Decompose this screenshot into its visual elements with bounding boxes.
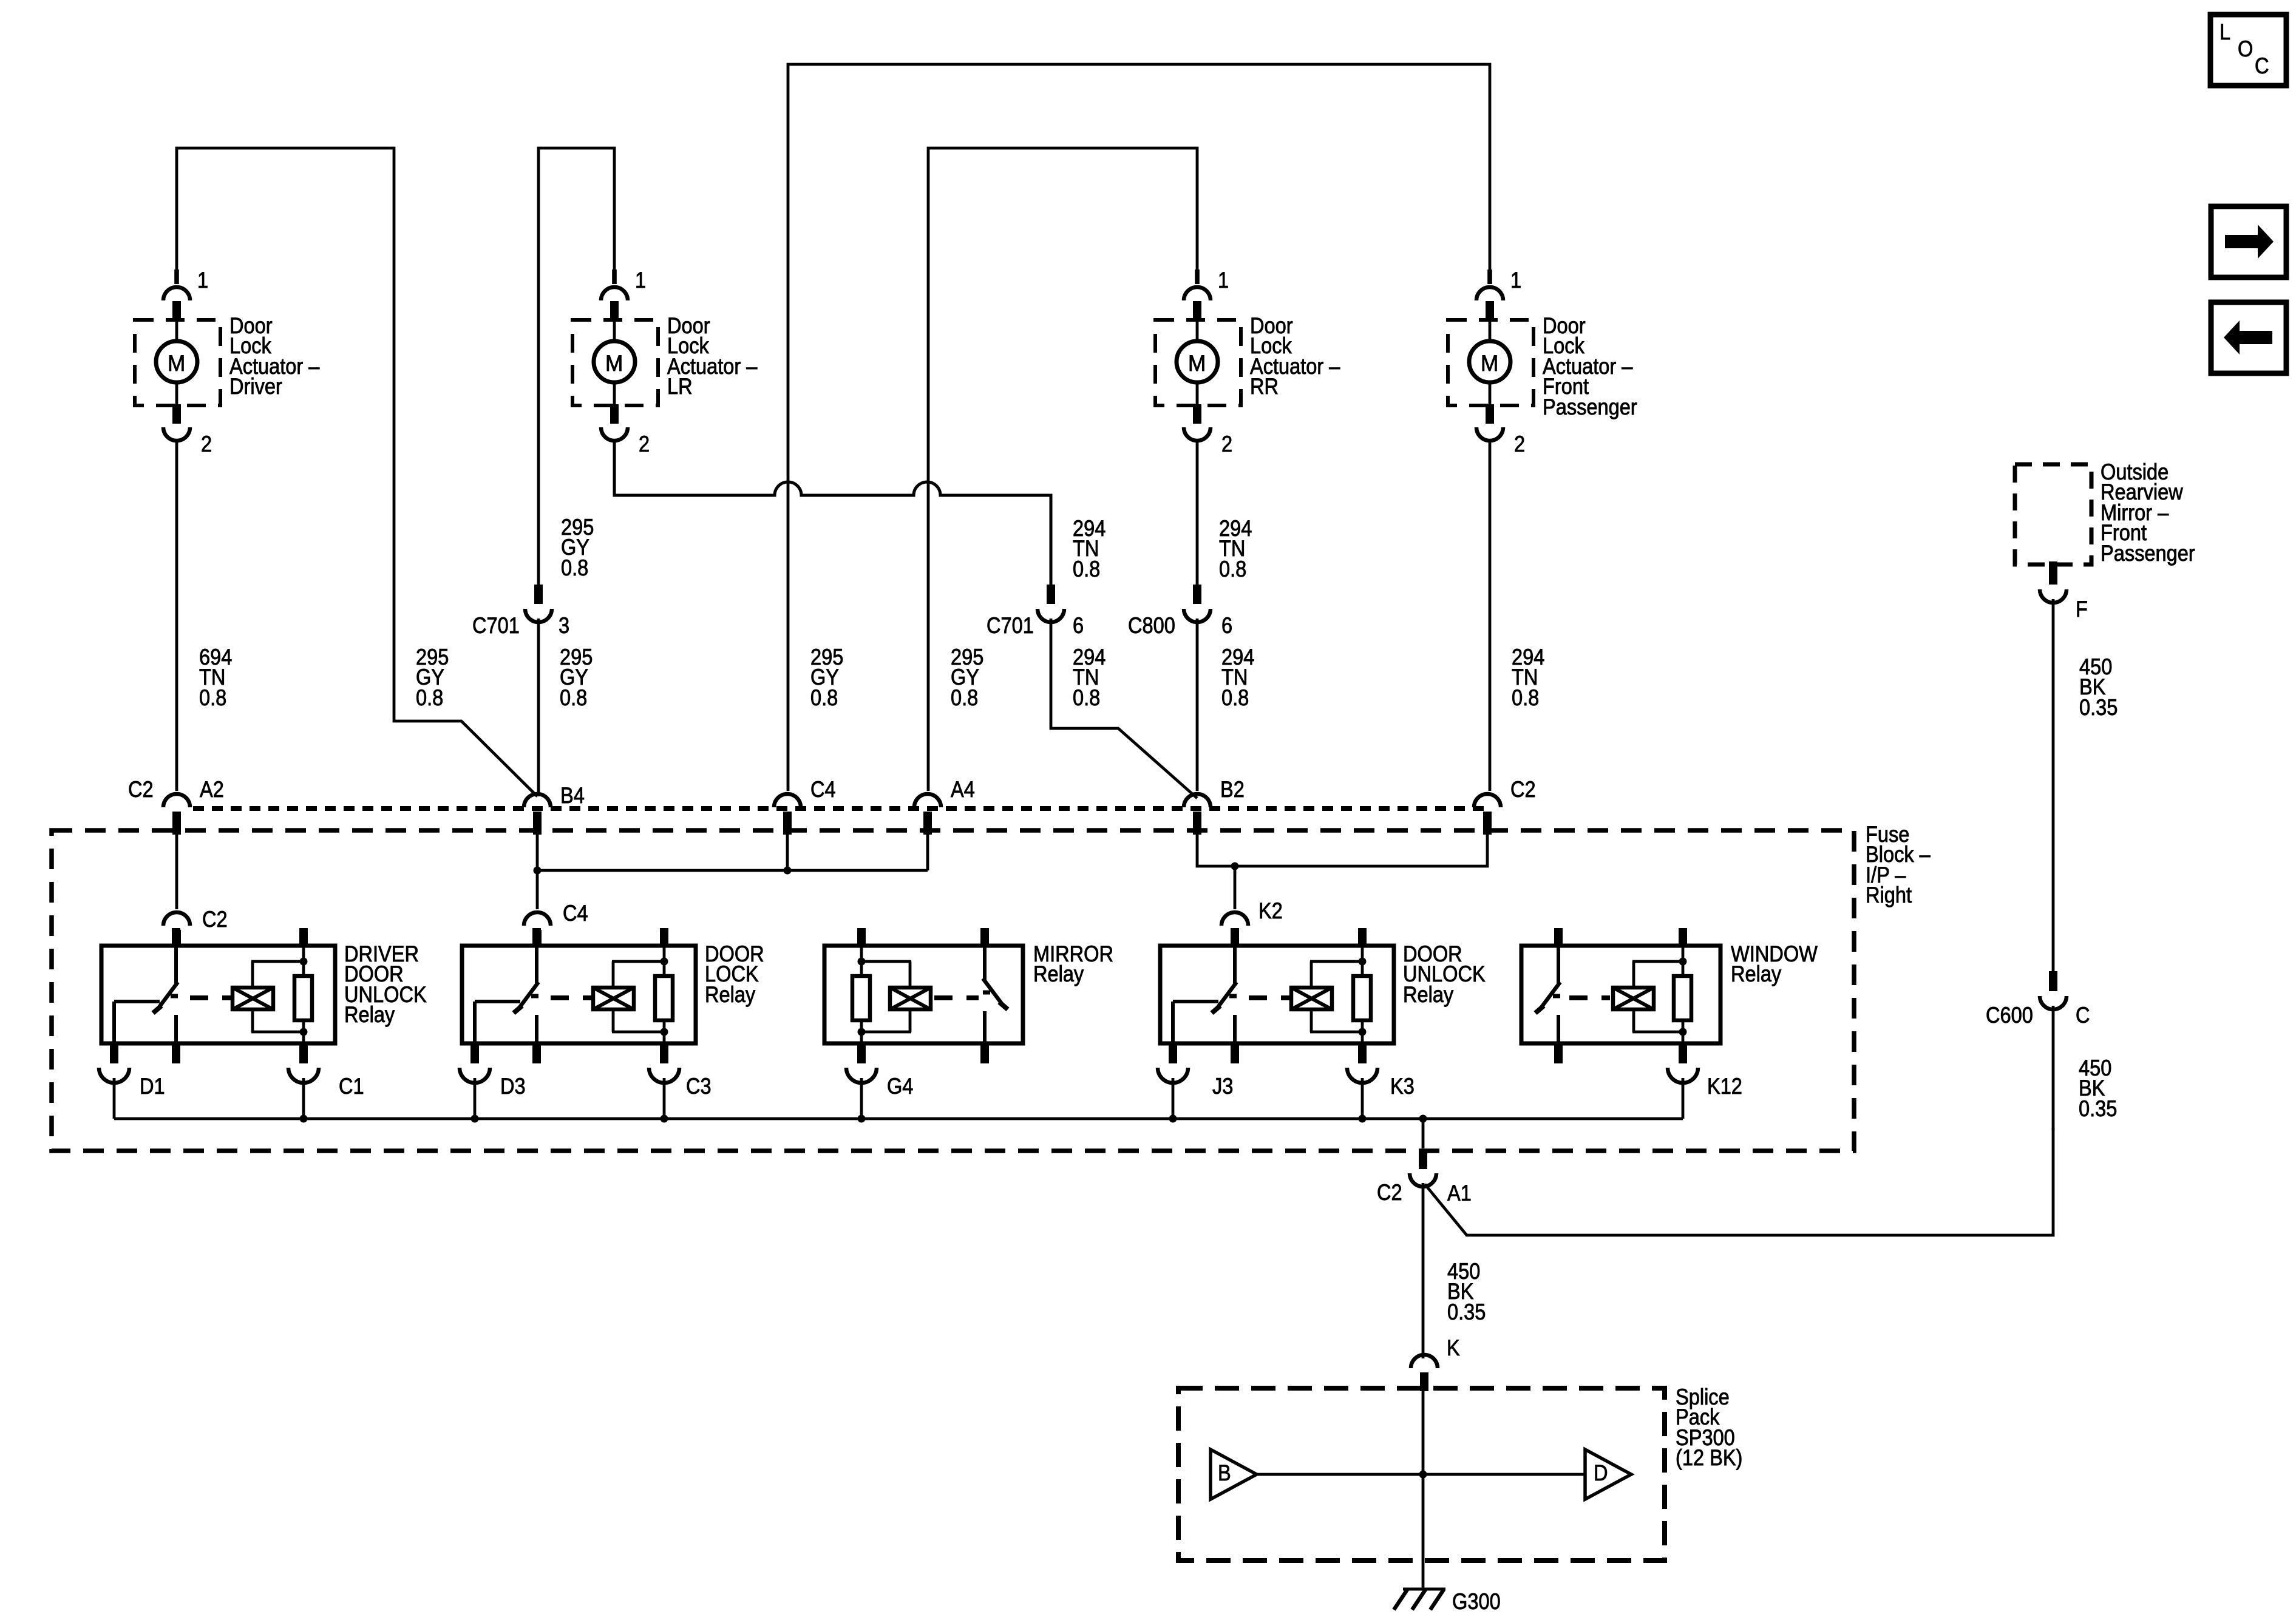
coil-resistor top link (DOOR UNLOCK) <box>1310 960 1362 963</box>
top right stub pin (DOOR UNLOCK) <box>1358 928 1367 946</box>
svg-text:C2: C2 <box>202 907 228 932</box>
svg-text:0.8: 0.8 <box>416 685 443 710</box>
splice pack entry connector K <box>1411 1355 1438 1391</box>
resistor bottom lead (DOOR LOCK) <box>663 1019 666 1032</box>
svg-text:Right: Right <box>1866 883 1912 907</box>
junction dot K2 branch <box>1231 863 1239 870</box>
relay DRIVER DOOR UNLOCK <box>99 928 427 1119</box>
relay body box (DRIVER DOOR UNLOCK) <box>101 946 335 1043</box>
svg-text:Relay: Relay <box>705 982 756 1007</box>
svg-text:2: 2 <box>1514 432 1525 456</box>
svg-text:D3: D3 <box>500 1074 526 1099</box>
wire J3 to ground bus (DOOR UNLOCK) <box>1172 1078 1175 1119</box>
switch common wire (DOOR LOCK) <box>535 946 538 983</box>
bottom pin C1 (DRIVER DOOR UNLOCK) <box>299 1043 308 1063</box>
left arrow box <box>2211 302 2286 373</box>
pin 2 terminal (driver) <box>172 404 181 424</box>
coil top lead (DOOR LOCK) <box>612 961 615 988</box>
svg-text:Relay: Relay <box>344 1002 395 1027</box>
junction dot splice SP300 <box>1419 1471 1427 1479</box>
svg-text:RR: RR <box>1250 374 1279 399</box>
svg-text:0.35: 0.35 <box>2079 1096 2117 1121</box>
svg-text:Relay: Relay <box>1731 961 1782 986</box>
wire K3 to ground bus (DOOR UNLOCK) <box>1361 1078 1364 1119</box>
svg-text:Passenger: Passenger <box>1543 395 1637 419</box>
fuse block exit connector C2/A1 <box>1410 1151 1436 1187</box>
resistor bottom lead (DOOR UNLOCK) <box>1361 1019 1364 1032</box>
top left stub pin (MIRROR) <box>857 928 866 946</box>
svg-text:0.8: 0.8 <box>951 685 978 710</box>
connector C800 pin 6 <box>1128 585 1232 638</box>
relay feed connector C2 (driver door unlock relay) <box>163 912 190 946</box>
svg-text:0.8: 0.8 <box>1073 685 1100 710</box>
svg-text:0.8: 0.8 <box>1221 685 1249 710</box>
pin 1 connector arc (LR) <box>601 287 628 300</box>
switch contact nub (DOOR UNLOCK) <box>1229 994 1237 998</box>
ground bus wire inside fuse block <box>114 1117 1683 1120</box>
switch blade foot (DOOR UNLOCK) <box>1212 1006 1220 1013</box>
svg-text:Driver: Driver <box>229 374 282 399</box>
mechanical link dashes (MIRROR) <box>934 995 979 1000</box>
svg-text:0.8: 0.8 <box>810 685 838 710</box>
mirror connector pin F <box>2040 561 2067 603</box>
pin 2 terminal (front passenger) <box>1486 404 1494 424</box>
connector arc J3 (DOOR UNLOCK) <box>1158 1068 1188 1083</box>
svg-text:2: 2 <box>639 432 650 456</box>
coil wire to bottom pin (DOOR LOCK) <box>663 1032 666 1043</box>
junction dot on ground bus <box>300 1115 308 1123</box>
svg-text:M: M <box>1188 351 1206 376</box>
pin 1 terminal (LR) <box>610 301 619 320</box>
svg-text:M: M <box>1481 351 1498 376</box>
LOC reference box <box>2210 15 2286 86</box>
mechanical link dashes (DOOR LOCK) <box>551 995 591 1000</box>
svg-text:0.8: 0.8 <box>1512 685 1539 710</box>
wire LR actuator pin2 to connector C701 pin3 with crossover hops <box>614 439 1051 586</box>
junction dot coil bottom (WINDOW) <box>1679 1028 1687 1036</box>
bottom pin K3 (DOOR UNLOCK) <box>1358 1043 1367 1063</box>
internal wire pin1-motor (driver) <box>175 320 178 342</box>
motor symbol M (front passenger) <box>1469 341 1510 382</box>
throw contact wire vertical (DRIVER DOOR UNLOCK) <box>112 1002 116 1043</box>
junction dot coil top (MIRROR) <box>858 958 866 966</box>
interior wire A4 down to bus <box>926 835 929 870</box>
right arrow box <box>2211 206 2286 277</box>
junction dot B4/bus <box>534 867 542 875</box>
relay coil (DRIVER DOOR UNLOCK) <box>233 988 273 1009</box>
wire C701-3 to fuse block B4 <box>537 619 540 796</box>
coil-resistor bottom link (DRIVER DOOR UNLOCK) <box>251 1031 304 1034</box>
connector arc K3 (DOOR UNLOCK) <box>1347 1068 1377 1083</box>
svg-text:K3: K3 <box>1390 1074 1415 1099</box>
svg-text:C2: C2 <box>128 777 154 802</box>
switch lower stub (DOOR LOCK) <box>535 1015 538 1043</box>
junction dot coil top (WINDOW) <box>1679 958 1687 966</box>
svg-text:B: B <box>1218 1460 1231 1485</box>
junction dot coil top (DOOR LOCK) <box>661 958 668 966</box>
svg-text:C4: C4 <box>810 777 836 802</box>
relay MIRROR <box>824 928 1113 1119</box>
pin 1 connector arc (driver) <box>163 287 190 300</box>
pin 2 terminal (LR) <box>610 404 619 424</box>
junction dot ground bus to A1 <box>1419 1115 1427 1123</box>
relay feed connector K2 (door unlock relay) <box>1221 912 1248 946</box>
internal wire motor-pin2 (driver) <box>175 382 178 405</box>
svg-text:G4: G4 <box>887 1074 913 1099</box>
switch blade foot (DOOR LOCK) <box>514 1006 522 1013</box>
junction dot on ground bus <box>661 1115 668 1123</box>
top switch pin (DOOR LOCK) <box>532 928 541 946</box>
svg-text:0.8: 0.8 <box>560 685 587 710</box>
coil top lead (WINDOW) <box>1632 961 1635 988</box>
svg-text:C701: C701 <box>472 613 520 638</box>
interior wire to door unlock relay K2 <box>1234 866 1237 909</box>
svg-text:B2: B2 <box>1220 777 1245 802</box>
top right stub pin (DRIVER DOOR UNLOCK) <box>299 928 308 946</box>
coil bottom lead (DRIVER DOOR UNLOCK) <box>251 1009 254 1032</box>
fuse block entry connector C4 <box>774 794 801 835</box>
relay DOOR LOCK <box>460 928 764 1119</box>
wire C600 down to corner <box>2052 1006 2055 1130</box>
svg-text:K2: K2 <box>1258 898 1283 923</box>
bottom middle stub pin (DOOR UNLOCK) <box>1231 1043 1239 1063</box>
resistor (WINDOW) <box>1674 976 1691 1020</box>
actuator dashed outline (LR) <box>572 320 658 405</box>
junction dot on ground bus <box>1359 1115 1367 1123</box>
svg-text:6: 6 <box>1073 613 1084 638</box>
junction dot coil bottom (MIRROR) <box>858 1028 866 1036</box>
throw contact wire vertical (DOOR LOCK) <box>473 1002 477 1043</box>
svg-text:0.8: 0.8 <box>1073 557 1100 581</box>
junction dot on ground bus <box>858 1115 866 1123</box>
svg-text:C800: C800 <box>1128 613 1175 638</box>
coil bottom lead (WINDOW) <box>1632 1009 1635 1032</box>
mechanical link dashes (DOOR UNLOCK) <box>1249 995 1289 1000</box>
wire driver actuator pin2 to fuse block A2 <box>175 439 178 791</box>
svg-text:A4: A4 <box>951 777 975 802</box>
internal wire pin1-motor (LR) <box>613 320 616 342</box>
splice terminal triangle B <box>1211 1449 1257 1499</box>
branch wire A1 to C600 (mirror feed) <box>1425 1128 2053 1235</box>
fuse block entry connector A4 <box>914 794 941 835</box>
pin 1 connector arc (front passenger) <box>1476 287 1503 300</box>
coil-resistor top link (WINDOW) <box>1632 960 1683 963</box>
svg-text:B4: B4 <box>560 783 585 808</box>
svg-text:L: L <box>2220 19 2230 44</box>
pin 1 terminal (RR) <box>1193 301 1201 320</box>
svg-text:(12 BK): (12 BK) <box>1676 1445 1742 1470</box>
resistor top lead (WINDOW) <box>1682 961 1685 977</box>
internal wire motor-pin2 (RR) <box>1196 382 1199 405</box>
relay feed connector C4 (door lock relay) <box>524 912 551 946</box>
wire C3 to ground bus (DOOR LOCK) <box>663 1078 666 1119</box>
switch contact nub (WINDOW) <box>1553 994 1560 998</box>
fuse block entry connector B4 <box>524 794 551 835</box>
bottom middle stub pin (DOOR LOCK) <box>532 1043 541 1063</box>
connector arc C1 (DRIVER DOOR UNLOCK) <box>288 1068 319 1083</box>
svg-text:M: M <box>168 351 185 376</box>
wire D1 to ground bus (DRIVER DOOR UNLOCK) <box>113 1078 116 1119</box>
svg-text:C701: C701 <box>987 613 1034 638</box>
svg-text:O: O <box>2238 36 2253 61</box>
pin 1 terminal (driver) <box>172 301 181 320</box>
wire front passenger actuator pin2 to fuse block C2 <box>1489 439 1492 791</box>
throw contact wire horizontal (DOOR LOCK) <box>475 1000 520 1003</box>
resistor bottom lead (WINDOW) <box>1682 1019 1685 1032</box>
svg-text:2: 2 <box>201 432 212 456</box>
fuse block entry connector A2 <box>163 794 190 835</box>
bottom pin D3 (DOOR LOCK) <box>470 1043 479 1063</box>
svg-text:C600: C600 <box>1986 1003 2033 1028</box>
resistor (MIRROR) <box>852 976 870 1020</box>
svg-text:6: 6 <box>1221 613 1232 638</box>
internal wire pin1-motor (front passenger) <box>1489 320 1492 342</box>
coil-resistor bottom link (MIRROR) <box>861 1031 911 1034</box>
resistor top lead (DOOR UNLOCK) <box>1361 961 1364 977</box>
svg-text:F: F <box>2076 597 2088 622</box>
splice terminal triangle D <box>1585 1449 1631 1499</box>
coil feed wire (MIRROR) <box>860 946 863 961</box>
splice pack SP300 dashed box <box>1178 1388 1665 1561</box>
wire C701-6 to fuse block B2 (with diagonal) <box>1051 619 1197 798</box>
switch lower stub (DOOR UNLOCK) <box>1233 1015 1237 1043</box>
coil-resistor top link (MIRROR) <box>861 960 911 963</box>
top feed loop wire (front passenger circuit) <box>788 64 1490 791</box>
switch blade (MIRROR) <box>983 978 1005 1008</box>
coil wire to bottom pin (DRIVER DOOR UNLOCK) <box>302 1032 305 1043</box>
interior bus B4/C4/A4 to door lock relay <box>537 869 928 872</box>
switch common wire (DRIVER DOOR UNLOCK) <box>174 946 178 983</box>
coil feed wire from top pin (DRIVER DOOR UNLOCK) <box>302 946 305 961</box>
top right stub pin (WINDOW) <box>1679 928 1687 946</box>
switch common wire (MIRROR) <box>983 946 987 980</box>
switch contact nub (DRIVER DOOR UNLOCK) <box>171 994 178 998</box>
relay DOOR UNLOCK <box>1158 928 1486 1119</box>
fuse block entry connector C2 <box>1474 794 1501 835</box>
outside rearview mirror dashed box <box>2015 464 2091 564</box>
bottom left stub pin (WINDOW) <box>1554 1043 1563 1063</box>
switch blade foot (DRIVER DOOR UNLOCK) <box>153 1006 161 1013</box>
wire A1 down to splice pack <box>1422 1183 1425 1358</box>
coil feed wire (WINDOW) <box>1682 946 1685 961</box>
top feed loop wire (driver circuit) <box>177 148 537 796</box>
switch lower stub (DRIVER DOOR UNLOCK) <box>174 1015 178 1043</box>
svg-text:1: 1 <box>635 268 646 293</box>
svg-text:D: D <box>1594 1460 1608 1485</box>
junction dot coil bottom (DOOR UNLOCK) <box>1359 1028 1367 1036</box>
bottom pin K12 (WINDOW) <box>1679 1043 1687 1063</box>
fuse block connector face dotted line <box>193 806 1486 811</box>
switch contact nub (DOOR LOCK) <box>531 994 538 998</box>
bottom pin J3 (DOOR UNLOCK) <box>1169 1043 1177 1063</box>
throw contact wire horizontal (DRIVER DOOR UNLOCK) <box>114 1000 160 1003</box>
switch blade (DRIVER DOOR UNLOCK) <box>156 982 178 1011</box>
internal wire motor-pin2 (LR) <box>613 382 616 405</box>
coil top lead (DOOR UNLOCK) <box>1310 961 1313 988</box>
resistor top lead (MIRROR) <box>860 961 863 977</box>
junction dot on ground bus <box>471 1115 479 1123</box>
relay coil (MIRROR) <box>890 988 931 1009</box>
door lock actuator - RR <box>1155 268 1340 456</box>
relay coil (DOOR LOCK) <box>593 988 634 1009</box>
relay body box (MIRROR) <box>824 946 1023 1043</box>
coil feed wire from top pin (DOOR LOCK) <box>663 946 666 961</box>
pin 1 connector arc (RR) <box>1184 287 1211 300</box>
connector arc D3 (DOOR LOCK) <box>460 1068 490 1083</box>
throw contact wire horizontal (DOOR UNLOCK) <box>1173 1000 1218 1003</box>
top feed loop wire (LR circuit) <box>538 148 614 586</box>
top switch pin (DOOR UNLOCK) <box>1231 928 1239 946</box>
connector arc C3 (DOOR LOCK) <box>649 1068 679 1083</box>
svg-text:3: 3 <box>559 613 569 638</box>
coil-resistor top link (DRIVER DOOR UNLOCK) <box>251 960 304 963</box>
svg-text:0.8: 0.8 <box>561 555 588 580</box>
switch common wire (DOOR UNLOCK) <box>1233 946 1237 983</box>
svg-text:D1: D1 <box>140 1074 165 1099</box>
coil wire to bottom pin (WINDOW) <box>1682 1032 1685 1043</box>
switch lower stub (MIRROR) <box>983 1011 987 1043</box>
svg-text:C3: C3 <box>686 1074 712 1099</box>
mechanical link dashes (DRIVER DOOR UNLOCK) <box>190 995 231 1000</box>
svg-text:J3: J3 <box>1212 1074 1233 1099</box>
svg-text:0.35: 0.35 <box>1447 1300 1486 1324</box>
switch blade (DOOR LOCK) <box>517 982 538 1011</box>
coil bottom lead (DOOR LOCK) <box>612 1009 615 1032</box>
switch contact nub (MIRROR) <box>983 991 990 995</box>
resistor (DOOR UNLOCK) <box>1353 976 1371 1020</box>
switch blade foot (WINDOW) <box>1535 1006 1544 1013</box>
svg-text:Passenger: Passenger <box>2101 541 2195 566</box>
svg-text:0.8: 0.8 <box>1219 557 1246 581</box>
top feed loop wire (RR circuit) <box>928 148 1197 791</box>
interior wire B2 down and bus to C2 <box>1197 835 1487 866</box>
pin 2 connector arc (LR) <box>601 427 628 441</box>
svg-text:C4: C4 <box>563 901 588 926</box>
wire K12 to ground bus (WINDOW) <box>1682 1078 1685 1119</box>
connector arc G4 (MIRROR) <box>846 1068 877 1083</box>
coil-resistor bottom link (WINDOW) <box>1632 1031 1683 1034</box>
svg-text:C: C <box>2076 1003 2090 1028</box>
wire K into splice <box>1422 1391 1425 1588</box>
pin 2 connector arc (front passenger) <box>1476 427 1503 441</box>
svg-text:K12: K12 <box>1707 1074 1742 1099</box>
throw contact wire vertical (DOOR UNLOCK) <box>1171 1002 1175 1043</box>
svg-text:A1: A1 <box>1447 1181 1472 1205</box>
bottom pin D1 (DRIVER DOOR UNLOCK) <box>110 1043 118 1063</box>
relay body box (WINDOW) <box>1521 946 1720 1043</box>
switch blade (DOOR UNLOCK) <box>1215 982 1237 1011</box>
ground symbol G300 <box>1394 1589 1445 1610</box>
actuator dashed outline (front passenger) <box>1448 320 1533 405</box>
resistor (DOOR LOCK) <box>655 976 673 1020</box>
pin 2 connector arc (driver) <box>163 427 190 441</box>
svg-text:K: K <box>1447 1335 1460 1360</box>
top left stub pin (WINDOW) <box>1554 928 1563 946</box>
bottom pin C3 (DOOR LOCK) <box>660 1043 668 1063</box>
svg-text:Relay: Relay <box>1033 961 1084 986</box>
in-line connector C600 pin C <box>2040 971 2067 1009</box>
junction dot coil top (DRIVER DOOR UNLOCK) <box>300 958 308 966</box>
coil-resistor top link (DOOR LOCK) <box>612 960 664 963</box>
svg-text:C1: C1 <box>339 1074 364 1099</box>
door lock actuator - front passenger <box>1448 268 1637 456</box>
wire mirror F to C600 <box>2052 599 2055 971</box>
motor symbol M (LR) <box>594 341 635 382</box>
junction dot coil top (DOOR UNLOCK) <box>1359 958 1367 966</box>
wire RR actuator pin2 to connector C800 pin6 <box>1196 439 1199 586</box>
coil top lead (DRIVER DOOR UNLOCK) <box>251 961 254 988</box>
interior wire C4 down to bus <box>786 835 789 870</box>
resistor top lead (DRIVER DOOR UNLOCK) <box>302 961 305 977</box>
top right stub pin (MIRROR) <box>980 928 989 946</box>
svg-text:1: 1 <box>197 268 208 293</box>
motor symbol M (RR) <box>1177 341 1218 382</box>
relay WINDOW <box>1521 928 1818 1119</box>
svg-text:C: C <box>2255 53 2269 78</box>
relay body box (DOOR LOCK) <box>462 946 696 1043</box>
coil-resistor bottom link (DOOR UNLOCK) <box>1310 1031 1362 1034</box>
resistor (DRIVER DOOR UNLOCK) <box>294 976 312 1020</box>
junction dot coil bottom (DRIVER DOOR UNLOCK) <box>300 1028 308 1036</box>
internal wire pin1-motor (RR) <box>1196 320 1199 342</box>
coil-resistor bottom link (DOOR LOCK) <box>612 1031 664 1034</box>
wire bus to fuse block exit A1 <box>1422 1119 1425 1148</box>
relay coil (DOOR UNLOCK) <box>1291 988 1332 1009</box>
pin 1 terminal (front passenger) <box>1486 301 1494 320</box>
resistor top lead (DOOR LOCK) <box>663 961 666 977</box>
motor symbol M (driver) <box>156 341 197 382</box>
interior wire B4 down to bus <box>536 835 539 909</box>
fuse block entry connector B2 <box>1184 794 1211 835</box>
svg-text:LR: LR <box>667 374 693 399</box>
connector arc D1 (DRIVER DOOR UNLOCK) <box>99 1068 129 1083</box>
svg-text:C2: C2 <box>1377 1180 1402 1205</box>
coil feed wire from top pin (DOOR UNLOCK) <box>1361 946 1364 961</box>
pin 2 connector arc (RR) <box>1184 427 1211 441</box>
interior wire A2 to driver door unlock relay C2 <box>175 835 178 909</box>
bottom pin G4 (MIRROR) <box>857 1043 866 1063</box>
junction dot on ground bus <box>1169 1115 1177 1123</box>
switch common wire (WINDOW) <box>1557 946 1560 983</box>
door lock actuator - LR <box>572 268 758 456</box>
coil wire to bottom pin (MIRROR) <box>860 1032 863 1043</box>
coil bottom lead (MIRROR) <box>909 1009 912 1032</box>
switch lower stub (WINDOW) <box>1557 1015 1560 1043</box>
coil wire to bottom pin (DOOR UNLOCK) <box>1361 1032 1364 1043</box>
bottom right stub pin (MIRROR) <box>980 1043 989 1063</box>
connector arc K12 (WINDOW) <box>1668 1068 1698 1083</box>
svg-text:A2: A2 <box>200 777 224 802</box>
svg-text:1: 1 <box>1218 268 1229 293</box>
switch blade (WINDOW) <box>1538 982 1560 1011</box>
connector C701 pin 3 <box>472 585 569 638</box>
resistor bottom lead (DRIVER DOOR UNLOCK) <box>302 1019 305 1032</box>
actuator dashed outline (driver) <box>135 320 220 405</box>
actuator dashed outline (RR) <box>1155 320 1241 405</box>
junction dot C4/bus <box>784 867 792 875</box>
svg-text:1: 1 <box>1510 268 1521 293</box>
junction dot coil bottom (DOOR LOCK) <box>661 1028 668 1036</box>
coil bottom lead (DOOR UNLOCK) <box>1310 1009 1313 1032</box>
svg-text:G300: G300 <box>1452 1589 1501 1614</box>
door lock actuator - driver <box>135 268 320 456</box>
resistor bottom lead (MIRROR) <box>860 1019 863 1032</box>
top switch pin (DRIVER DOOR UNLOCK) <box>172 928 180 946</box>
wire D3 to ground bus (DOOR LOCK) <box>474 1078 477 1119</box>
pin 2 terminal (RR) <box>1193 404 1201 424</box>
svg-text:0.8: 0.8 <box>199 685 226 710</box>
splice bus B to D <box>1257 1473 1585 1476</box>
